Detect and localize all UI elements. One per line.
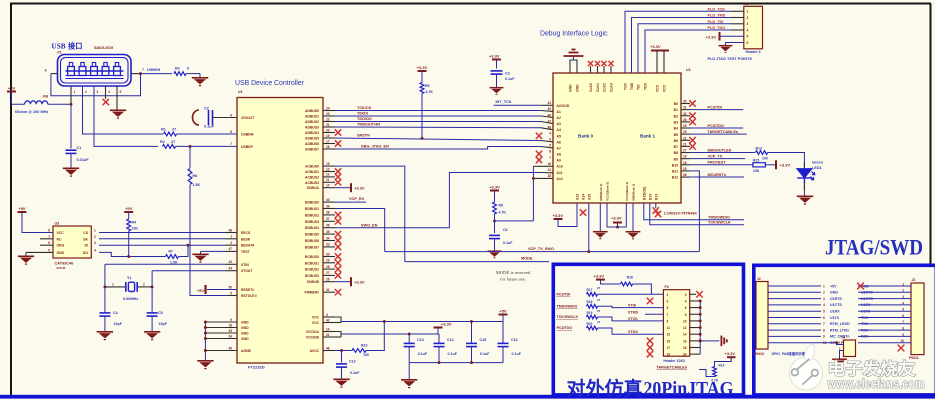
svg-text:2: 2 [902,289,904,293]
wire GND bus of U1 [204,322,206,360]
svg-text:SI/WUB: SI/WUB [307,280,320,284]
svg-text:ACBUS1: ACBUS1 [305,170,319,174]
svg-text:4.7K: 4.7K [499,211,507,215]
no-connect X on P2 pin2 [690,293,696,295]
ground at C3 [496,74,498,87]
wire VCP_TX net [690,158,745,160]
svg-text:7: 7 [549,156,551,160]
svg-text:CAT93C46: CAT93C46 [55,262,74,266]
svg-text:BDBUS6: BDBUS6 [305,239,319,243]
wire C14 top [438,334,440,343]
junction SRSTn pullup [421,137,424,140]
wire +5V to U3 VCC [22,212,53,233]
svg-text:27: 27 [597,286,601,290]
svg-text:9: 9 [823,335,825,339]
svg-text:+3.3V: +3.3V [706,35,717,40]
svg-text:4: 4 [108,90,110,94]
wire TDI/DI net [335,115,541,117]
no-connect X on ACBUS3 [335,179,341,185]
svg-text:DI: DI [85,244,88,248]
wire R13 to LED [768,153,805,162]
svg-text:100: 100 [762,157,768,161]
svg-text:C6: C6 [503,228,508,232]
svg-text:15: 15 [326,162,330,166]
svg-text:3: 3 [326,313,328,317]
junction P2 bus [699,306,702,309]
ground at P1 pin5 [116,86,118,110]
svg-text:5: 5 [120,90,122,94]
svg-text:R4: R4 [132,221,137,225]
svg-text:FT2232D: FT2232D [248,365,265,370]
ground at R3 [199,74,201,77]
svg-text:7: 7 [823,322,825,326]
svg-text:11: 11 [326,178,330,182]
no-connect X at A14 [580,209,586,215]
svg-text:8: 8 [230,130,232,134]
svg-text:6: 6 [823,316,825,320]
svg-text:47: 47 [547,119,551,123]
svg-text:C1: C1 [77,146,82,150]
svg-text:16: 16 [683,339,687,343]
svg-text:EESK: EESK [241,237,251,241]
power +3.3V pullup R5 [418,70,427,72]
elecfans watermark logo [790,344,925,391]
svg-text:8: 8 [902,327,904,331]
section box GPIO/serial headers [754,265,935,395]
svg-text:R2: R2 [160,140,165,144]
svg-text:0.1uF: 0.1uF [204,125,215,129]
svg-text:5: 5 [902,308,904,312]
power +5V at VCC rail [499,314,508,316]
svg-text:1: 1 [112,283,114,287]
svg-text:30: 30 [326,252,330,256]
svg-text:R3: R3 [175,67,180,71]
svg-text:接口: 接口 [68,42,82,51]
wire J1 pin6 to ground [726,43,744,46]
svg-text:PC3/TDO: PC3/TDO [557,326,573,330]
svg-text:7: 7 [902,320,904,324]
no-connect X on BDBUS2 [335,212,341,218]
svg-text:6.00MHz: 6.00MHz [123,297,138,301]
junction EEDATA/R7 [187,244,190,247]
svg-text:Bank 0: Bank 0 [578,134,594,139]
junction VCC rail R10 [383,320,386,323]
wire TMS/CS net [335,126,541,129]
wire stubs left of U1 [225,232,237,234]
wire J3 pin 8 [858,329,911,331]
junction P2 bus [699,313,702,316]
wire J2 pin 10 [768,342,821,344]
svg-text:+5V: +5V [830,284,837,288]
svg-text:ADBUS0: ADBUS0 [305,109,319,113]
svg-text:1: 1 [230,235,232,239]
svg-text:Bank 1: Bank 1 [640,134,656,139]
svg-text:J1: J1 [745,2,749,6]
svg-text:GND: GND [569,84,573,92]
svg-text:40: 40 [326,198,330,202]
wire U3 ORG stub [40,244,53,246]
power +5V at ferrite [7,91,16,93]
svg-text:1: 1 [94,229,96,233]
svg-text:19: 19 [326,134,330,138]
svg-text:21: 21 [683,142,687,146]
wire C15 top [471,322,473,344]
svg-text:MODE is reserved: MODE is reserved [496,270,531,275]
svg-text:1: 1 [902,282,904,286]
svg-text:PIN10: PIN10 [754,352,764,356]
svg-text:A15: A15 [588,194,592,200]
wire PC3/TDO net [690,127,743,129]
ground at U1 GND bus [197,361,213,369]
svg-text:TCK/SWCLK: TCK/SWCLK [557,315,579,319]
svg-text:A11: A11 [557,171,563,175]
svg-text:+3.3V: +3.3V [611,216,622,221]
svg-text:R8: R8 [193,174,198,178]
ground at LED1 [803,183,805,190]
junction P2 bus [699,339,702,342]
svg-text:10K: 10K [132,227,139,231]
no-connect X on U2 A8 [536,151,542,157]
svg-text:U3: U3 [55,222,60,226]
junction XTIN/C4 [103,285,106,288]
wire C6 branch [494,221,496,233]
svg-text:22: 22 [683,136,687,140]
svg-text:4: 4 [747,28,749,32]
ground at J1 [719,46,733,53]
wire AVCC node [335,350,352,352]
svg-text:+3.3V: +3.3V [594,274,605,279]
svg-text:VCCO(Bank 1): VCCO(Bank 1) [625,182,629,201]
power +3.3V at SI/WUA [335,187,351,189]
no-connect X on ACBUS1 [335,168,341,174]
no-connect X on BDBUS5 [335,231,341,237]
svg-text:U1CTS: U1CTS [861,297,873,301]
svg-text:27: 27 [597,320,601,324]
svg-text:C2: C2 [204,107,209,111]
svg-text:2: 2 [85,90,87,94]
wire PLD_TCK net [625,11,731,73]
svg-text:5: 5 [747,35,749,39]
svg-text:VCC: VCC [656,84,660,92]
svg-text:48: 48 [228,228,232,232]
svg-text:B15(OE): B15(OE) [643,187,647,200]
svg-text:PROTEST: PROTEST [708,161,727,165]
wire J2 pin 5 [768,310,821,312]
svg-text:R15: R15 [753,159,759,163]
wire C4 branch [104,287,106,312]
wire TARGETCABLEn to R14 [699,370,715,377]
svg-text:38: 38 [326,211,330,215]
svg-text:ACBUS0: ACBUS0 [305,165,319,169]
ground at J4 [832,359,847,366]
svg-text:VCP_TX: VCP_TX [708,154,723,158]
wire shield loop [51,74,141,96]
svg-text:BDBUS4: BDBUS4 [305,226,319,230]
wire TCK/CK net [335,110,541,112]
svg-text:GND: GND [830,291,838,295]
wire ACBUS0 to MODE [335,166,405,262]
wire R10 to VCC rail [366,322,384,351]
wire USBSH to R3 [141,73,173,75]
svg-text:PC3/TDI: PC3/TDI [708,105,723,109]
no-connect X on ADBUS6 [335,140,341,146]
svg-text:TCK: TCK [624,82,628,90]
svg-text:BCBUS0: BCBUS0 [305,255,319,259]
power +3.3V at R15 [765,164,776,166]
svg-text:对外仿真: 对外仿真 [567,377,643,400]
svg-text:B13: B13 [655,194,659,200]
svg-text:5: 5 [549,144,551,148]
svg-text:6: 6 [549,138,551,142]
svg-text:4.7K: 4.7K [711,379,719,383]
wire J3 pin 2 [858,291,911,293]
svg-text:4: 4 [902,301,904,305]
svg-text:2: 2 [94,235,96,239]
junction P2 bus [699,333,702,336]
power +5V at RESET# [204,285,206,294]
svg-text:B0: B0 [674,102,678,106]
svg-text:PC3/TDI: PC3/TDI [557,293,571,297]
svg-text:PLD_TDO: PLD_TDO [708,26,726,30]
svg-text:1: 1 [74,90,76,94]
svg-text:36: 36 [326,224,330,228]
svg-text:GND: GND [57,251,65,255]
wire MCURSTn net [690,176,744,178]
wire J3 pin 3 [858,298,911,300]
wire EEDATA net [99,244,225,246]
svg-text:J4: J4 [842,335,846,339]
wire XTOUT net [152,270,225,272]
svg-text:35: 35 [326,230,330,234]
svg-text:C3: C3 [505,72,510,76]
wire P1 pin2 D+ [83,86,164,134]
ground at C5 [151,316,153,331]
svg-text:GND: GND [241,337,249,341]
svg-text:BCBUS2: BCBUS2 [305,268,319,272]
svg-text:SK: SK [83,237,88,241]
wire XTIN net [105,263,225,265]
svg-text:ACBUS3: ACBUS3 [305,181,319,185]
svg-text:26: 26 [683,118,687,122]
svg-text:FB: FB [43,95,48,99]
svg-text:EEDATA: EEDATA [241,244,255,248]
svg-text:7: 7 [667,313,669,317]
svg-text:Y1: Y1 [127,276,131,280]
svg-text:U1CTS: U1CTS [830,303,842,307]
wire P2 even pins ground bus [690,300,701,302]
wire R8 to RSTOUT# [190,185,237,296]
svg-text:GND(Bank 0): GND(Bank 0) [599,184,603,201]
ground at C6 [494,239,496,251]
svg-text:26: 26 [326,278,330,282]
svg-text:54819-0519: 54819-0519 [94,46,113,50]
junction R9/C6 [493,219,496,222]
svg-text:VCCO(Bank 0): VCCO(Bank 0) [606,182,610,201]
no-connect X on BDBUS6 [335,237,341,243]
svg-text:B5: B5 [674,133,678,137]
svg-text:30: 30 [683,100,687,104]
svg-text:ADBUS4: ADBUS4 [305,131,319,135]
svg-text:XTDI: XTDI [628,304,636,308]
ground at U2 top GND pins [570,60,577,73]
wire DO to R7 [99,252,166,256]
wire J2 pin 7 [768,323,821,325]
svg-text:USBDP: USBDP [241,145,254,149]
svg-text:ACBUS2: ACBUS2 [305,175,319,179]
wire DBGOUTLED net [690,152,755,154]
svg-text:0.1uF: 0.1uF [448,352,458,356]
svg-text:+5V: +5V [18,206,26,211]
no-connect X on BCBUS pin [335,266,341,272]
svg-text:+3.3V: +3.3V [725,351,736,356]
svg-text:VCC: VCC [57,231,65,235]
svg-text:5: 5 [48,248,50,252]
svg-text:+3.3V: +3.3V [489,54,500,59]
svg-text:B4: B4 [674,127,678,131]
svg-text:U2: U2 [686,68,691,72]
svg-text:100: 100 [363,353,369,357]
svg-text:PIN11: PIN11 [909,356,919,360]
ground at U3 [25,252,27,255]
svg-text:ADBUS5: ADBUS5 [305,137,319,141]
junction P2 bus [699,319,702,322]
pin CLK1 of U2 with X [597,66,599,73]
wire P1 pin3 D- [94,86,158,146]
svg-text:2: 2 [823,291,825,295]
wire TARGETCABLEn net [690,133,747,135]
svg-text:A9: A9 [557,159,561,163]
junction DO pullup [127,255,130,258]
svg-text:27: 27 [326,271,330,275]
svg-text:JTAG/SWD: JTAG/SWD [825,235,923,260]
junction at pin7/shield [139,72,142,75]
svg-text:36: 36 [683,173,687,177]
svg-text:17: 17 [326,139,330,143]
svg-text:B12: B12 [672,176,678,180]
svg-text:J2: J2 [757,277,761,281]
svg-text:0.1uF: 0.1uF [505,77,515,81]
svg-text:37: 37 [326,217,330,221]
svg-text:25: 25 [228,329,232,333]
svg-text:BDBUS0: BDBUS0 [305,201,319,205]
svg-text:CLK0: CLK0 [589,83,593,92]
svg-text:2: 2 [143,283,145,287]
svg-text:PLD_TMS: PLD_TMS [708,14,726,18]
svg-text:电子发烧友: 电子发烧友 [828,359,917,379]
svg-text:23: 23 [683,130,687,134]
pin CLK3 of U2 with X [610,66,612,73]
svg-text:B6: B6 [674,139,678,143]
wire TDO/DO net [335,121,541,123]
svg-text:XTCK: XTCK [628,317,638,321]
svg-text:+3.3V: +3.3V [553,213,564,218]
wire VCC rail [335,317,341,323]
wire U3 NC stub [40,238,53,240]
ground at C12 [341,367,343,378]
junction XTOUT/C5 [151,285,154,288]
svg-text:9: 9 [230,318,232,322]
svg-text:ADBUS3: ADBUS3 [305,126,319,130]
svg-text:0.1uF: 0.1uF [480,352,490,356]
svg-text:18: 18 [547,174,551,178]
svg-text:3: 3 [823,297,825,301]
svg-text:SWO_EN: SWO_EN [361,224,378,228]
junction VCC rail C15 [470,320,473,323]
svg-text:PWREN#: PWREN# [304,291,319,295]
svg-text:A4: A4 [557,128,561,132]
svg-text:P2: P2 [665,285,669,289]
svg-text:0.1uF: 0.1uF [350,371,360,375]
svg-text:GND(Bank 1): GND(Bank 1) [632,184,636,201]
no-connect X on BDBUS7 [335,244,341,250]
wire P2 pin7 stub [645,313,663,315]
svg-text:7: 7 [142,68,144,72]
ground at C4 [104,316,106,331]
junction GND bus [204,321,207,324]
svg-text:9: 9 [667,319,669,323]
wire TCK/SWCLK net [650,203,744,225]
svg-text:B2: B2 [674,114,678,118]
wire +5V to FB [12,92,25,105]
wire C13 top [408,334,410,343]
svg-text:31: 31 [683,106,687,110]
svg-text:SRSTN: SRSTN [357,134,370,138]
svg-text:Header 10X2: Header 10X2 [663,359,685,363]
no-connect X on U2 A9 [536,157,542,163]
svg-text:+3.3V: +3.3V [354,280,365,285]
svg-text:RX0-: RX0- [861,335,870,339]
svg-text:RESET#: RESET# [241,288,254,292]
wire J3 pin 6 [858,317,911,319]
svg-text:AVCC: AVCC [310,349,320,353]
svg-text:RTM_LTXD: RTM_LTXD [830,328,849,332]
svg-text:16: 16 [326,145,330,149]
svg-text:TCK/CK: TCK/CK [357,106,372,110]
svg-text:DBG_JTAG_EN: DBG_JTAG_EN [361,144,389,148]
svg-text:+3.3V: +3.3V [650,44,661,49]
junction P2 bus [699,300,702,303]
wire J2 pin 1 [768,285,821,287]
svg-text:BDBUS1: BDBUS1 [305,207,319,211]
ground tab sideways [721,336,726,347]
no-connect X on U2 B7 [689,143,695,149]
svg-text:8: 8 [549,150,551,154]
wire J3 pin 4 [858,304,911,306]
svg-text:A7: A7 [557,146,561,150]
svg-text:14: 14 [683,333,687,337]
wire PLD_TDO net [645,30,731,73]
svg-text:CLK2: CLK2 [603,83,607,92]
svg-text:4: 4 [823,303,825,307]
no-connect X on PWREN# [335,289,341,295]
svg-text:22: 22 [326,117,330,121]
no-connect X on U2 A5 [536,133,542,139]
wire USBDP to R8 [189,146,191,168]
svg-text:1.5K: 1.5K [193,183,201,187]
svg-text:60ohm @ 100 MHz: 60ohm @ 100 MHz [15,110,48,114]
svg-text:+3.3V: +3.3V [780,162,791,167]
svg-text:24: 24 [326,106,330,110]
wire J3 pin 7 [858,323,911,325]
svg-text:43: 43 [228,260,232,264]
svg-text:39: 39 [326,204,330,208]
svg-text:5: 5 [230,291,232,295]
svg-text:0.1uF: 0.1uF [418,352,428,356]
svg-text:B11: B11 [672,170,678,174]
ground at C1 [70,154,72,168]
wire VCP_RX stub [335,201,366,203]
svg-text:VCC: VCC [312,316,320,320]
